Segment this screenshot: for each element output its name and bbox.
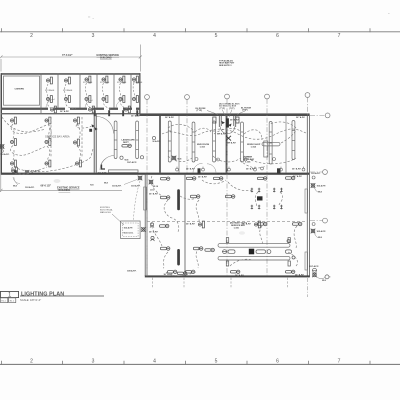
grid bubbles row (top)	[145, 93, 310, 100]
svg-text:6: 6	[276, 359, 279, 365]
top ruler ticks	[2, 28, 371, 32]
svg-text:WORK SHOP: WORK SHOP	[247, 144, 261, 146]
svg-text:1-103: 1-103	[200, 147, 206, 149]
svg-text:36" A.F.F.: 36" A.F.F.	[131, 115, 141, 118]
svg-text:(TYP): (TYP)	[220, 108, 226, 110]
tall fixture pill: x=270.6	[269, 122, 272, 165]
svg-text:ELECTRICAL: ELECTRICAL	[100, 209, 114, 212]
bench dark box	[249, 249, 254, 255]
storage door swing arcs	[46, 99, 124, 108]
locker cabinet in work shop	[264, 141, 268, 157]
storage partitions	[41, 74, 131, 114]
wall: lower block left wall (double line)	[145, 174, 147, 277]
tall fixture pill: mud band x=167.5	[168, 121, 171, 162]
label block right of grid stem	[229, 104, 241, 110]
top ruler numbers	[30, 33, 341, 39]
scan smudge near heavy duty bay	[239, 231, 245, 235]
room labels STORAGE	[45, 81, 143, 92]
svg-text:E1.1: E1.1	[10, 301, 15, 303]
svg-text:1-105: 1-105	[245, 162, 251, 164]
exterior wall light right wall upper	[311, 183, 316, 188]
svg-text:W-8: W-8	[104, 183, 109, 185]
dark strip fixture lower block B	[177, 249, 180, 266]
scan smudge near service bay	[54, 179, 61, 183]
work bench lower rail	[218, 256, 290, 260]
svg-text:W A.F.F.: W A.F.F.	[153, 140, 161, 143]
dark strip fixture lower block A	[177, 189, 180, 210]
fixtures at lower block NW corner	[150, 223, 155, 241]
svg-text:2: 2	[30, 33, 33, 39]
svg-text:SCALE: 1/8"=1'-0": SCALE: 1/8"=1'-0"	[20, 298, 41, 302]
lower block ceiling fixtures row 1	[160, 177, 170, 180]
wall: partition x=179	[178, 116, 180, 173]
svg-text:2: 2	[30, 359, 33, 365]
svg-text:36" A.F.F.: 36" A.F.F.	[230, 119, 240, 122]
wall: left wing bottom wall / lower block top wall	[1, 173, 310, 175]
vestibule homerun arrows	[222, 121, 225, 124]
manhole note text	[100, 207, 114, 214]
wall: interior wall x=160 between service bay and mud room band	[159, 116, 161, 173]
right-side grid leaders	[310, 115, 325, 220]
title block: number box	[1, 291, 19, 297]
wall: interior wall x=226 (vestibule)	[226, 116, 228, 173]
svg-text:36" A.F.F.: 36" A.F.F.	[235, 274, 245, 277]
tall fixture pill: x=296	[292, 121, 295, 160]
horizontal pill fixture in work shop	[262, 142, 280, 146]
exterior wall light right wall mid	[311, 229, 316, 234]
exterior wall light SE corner	[313, 268, 317, 272]
svg-text:36" A.F.F.: 36" A.F.F.	[295, 273, 305, 276]
tall fixture pill: x=193.5	[192, 122, 195, 162]
svg-text:36" A.F.F.: 36" A.F.F.	[186, 168, 196, 171]
dark junction box in service bay room	[257, 196, 263, 200]
svg-text:103 A.F.F.: 103 A.F.F.	[131, 185, 141, 188]
manhole box	[121, 221, 141, 239]
svg-text:7: 7	[338, 359, 341, 365]
storage room fixtures	[46, 77, 52, 84]
svg-text:W-10 U.G.: W-10 U.G.	[124, 233, 134, 235]
wall: lower block interior wall x=185	[184, 175, 186, 276]
tall fixture pill: x=212	[213, 121, 216, 162]
tall fixture pill: x=242	[241, 122, 244, 162]
downlight pairs in service bay room	[251, 188, 261, 192]
door arc from x=95 wall	[97, 117, 114, 134]
svg-text:77'-6 1/2": 77'-6 1/2"	[62, 54, 73, 57]
vestibule leader lines	[207, 110, 246, 118]
svg-text:BUILDING: BUILDING	[100, 57, 112, 60]
window panel on lower-left wall	[144, 187, 147, 210]
grid centerlines (dash-dot vertical)	[147, 97, 308, 277]
svg-text:36" A.F.F.: 36" A.F.F.	[296, 116, 306, 119]
wall light at manhole	[141, 227, 146, 232]
svg-text:108 A.F.F.: 108 A.F.F.	[127, 270, 137, 273]
left dimension line 66'-6 1/2"	[0, 75, 122, 192]
wall light at SW corner	[25, 170, 30, 175]
wall: partition x=286	[285, 116, 287, 173]
vestibule X mark	[226, 136, 231, 141]
svg-text:STORAGE: STORAGE	[100, 81, 110, 84]
gaps in storage south wall (doors)	[48, 108, 136, 111]
label block left of grid stem	[219, 104, 230, 110]
tall fixture pill with ticks: service bay x=115.5	[114, 121, 117, 159]
svg-text:36" A.F.F.: 36" A.F.F.	[165, 116, 175, 119]
vestibule door arc	[220, 127, 234, 134]
svg-text:6: 6	[276, 33, 279, 39]
scan speckles top	[88, 16, 90, 19]
svg-text:W-8: W-8	[178, 159, 183, 161]
title underline	[20, 295, 104, 297]
svg-text:36" A.F.F.: 36" A.F.F.	[186, 223, 196, 226]
circuit wiring dashed curves: left wing	[11, 117, 92, 174]
svg-text:36" A.F.F.: 36" A.F.F.	[246, 168, 256, 171]
svg-text:STORAGE: STORAGE	[117, 81, 127, 84]
svg-text:3: 3	[92, 359, 95, 365]
small ceiling outlets band bottom	[195, 158, 276, 170]
svg-text:5: 5	[215, 359, 218, 365]
svg-text:(TYP): (TYP)	[242, 110, 248, 112]
title block: ref boxes	[1, 298, 8, 303]
homerun arrows at interior wall	[92, 124, 95, 127]
dashed centerlines below building	[153, 278, 288, 288]
svg-text:36" A.F.F.: 36" A.F.F.	[217, 173, 227, 176]
svg-text:4: 4	[153, 359, 156, 365]
svg-text:CISTERN: CISTERN	[15, 89, 25, 91]
dashed interior line y=221 in lower block	[147, 220, 307, 222]
svg-text:103 A.F.F.: 103 A.F.F.	[112, 185, 122, 188]
svg-text:4: 4	[153, 33, 156, 39]
svg-text:W-8: W-8	[318, 237, 323, 239]
wall: building right exterior wall (double line)	[307, 115, 309, 278]
outlets in locker room	[120, 136, 156, 159]
long dashed wave across middle band	[2, 117, 306, 172]
svg-text:WF A.F.F.: WF A.F.F.	[217, 133, 227, 136]
svg-text:1-104: 1-104	[251, 146, 257, 149]
circuit wiring dashed curves: mud band	[168, 122, 296, 164]
svg-text:(TYP): (TYP)	[197, 110, 203, 112]
svg-text:3: 3	[92, 33, 95, 39]
vestibule walls at x=219.5/235	[219, 116, 235, 128]
right-side grid bubbles	[323, 113, 330, 223]
svg-text:(TYP): (TYP)	[229, 108, 235, 110]
svg-text:W-8: W-8	[318, 192, 323, 194]
dark door jambs on band bottom wall	[198, 168, 201, 174]
circuit wiring dashed curves: lower block	[151, 160, 298, 276]
wall: storage block south wall (left segment)	[1, 108, 141, 110]
work bench upper rail	[218, 244, 290, 248]
svg-text:36" A.F.F.: 36" A.F.F.	[292, 168, 302, 171]
lower block ceiling fixtures row 4 (near bottom wall)	[167, 270, 177, 273]
svg-text:103 A.F.F.: 103 A.F.F.	[311, 172, 321, 175]
dark panel on interior wall x=95	[89, 129, 92, 132]
svg-text:1-100: 1-100	[234, 228, 240, 230]
vestibule dark strip	[226, 118, 229, 127]
wall: main center wall thin left segment	[1, 113, 141, 114]
svg-text:36" A.F.F.: 36" A.F.F.	[164, 273, 174, 276]
svg-text:MAN HOLE: MAN HOLE	[100, 211, 111, 214]
lower block ceiling fixtures row 3	[160, 247, 170, 250]
svg-text:66'-6 1/2": 66'-6 1/2"	[41, 185, 52, 188]
bench end ticks	[226, 238, 228, 243]
window panel on right wall (upper)	[305, 189, 308, 213]
svg-text:103 A.F.F.: 103 A.F.F.	[0, 153, 10, 156]
svg-text:STORAGE: STORAGE	[133, 81, 143, 84]
svg-text:H-8: H-8	[90, 185, 94, 187]
bottom ruler line	[0, 363, 400, 365]
svg-text:103 A.F.F.: 103 A.F.F.	[317, 185, 327, 188]
door swing arcs at band bottom wall	[193, 163, 216, 173]
svg-text:36" A.F.F.: 36" A.F.F.	[198, 176, 208, 179]
band bottom-wall mounted fixtures	[176, 167, 305, 171]
corridor fixtures along y=109	[50, 106, 56, 113]
wall light in mud room	[172, 156, 177, 161]
circuit wiring dashed curves: storage rooms	[47, 83, 135, 109]
window panel on right wall (lower)	[305, 252, 308, 270]
scan speckle right	[388, 13, 390, 14]
bottom ruler ticks	[2, 361, 371, 365]
lower block ceiling fixtures row 2	[160, 196, 170, 199]
fixtures above dashed line	[198, 221, 204, 228]
svg-text:103 A.F.F.: 103 A.F.F.	[317, 230, 327, 233]
svg-text:STORAGE: STORAGE	[83, 81, 93, 84]
svg-text:W-8: W-8	[322, 280, 327, 282]
svg-text:E1.1: E1.1	[2, 301, 7, 303]
svg-text:103 A.F.F.: 103 A.F.F.	[124, 227, 134, 230]
svg-text:U.G.: U.G.	[150, 190, 155, 192]
svg-text:MUD ROOM: MUD ROOM	[197, 144, 209, 146]
exterior wall light left wing west	[0, 144, 4, 149]
wall: lower block bottom wall	[145, 275, 310, 277]
svg-text:103' A.F.F.: 103' A.F.F.	[309, 265, 319, 268]
svg-text:7: 7	[338, 33, 341, 39]
svg-text:WF A.F.F.: WF A.F.F.	[227, 142, 237, 145]
wall: main center wall right segment	[140, 113, 310, 116]
bottom ruler numbers	[30, 359, 341, 365]
cistern room inner outline	[4, 76, 40, 105]
service bay fixture grid	[10, 117, 16, 124]
svg-text:102' A.F.F.: 102' A.F.F.	[127, 161, 137, 164]
fixture at lower block bottom center	[177, 272, 187, 275]
wall: top wall of storage block	[1, 73, 141, 75]
top dimension line 77'-6 1/2"	[0, 45, 142, 72]
svg-text:36" A.F.F.: 36" A.F.F.	[60, 110, 70, 113]
door jambs below storage wall	[94, 110, 138, 116]
wall: left exterior wall	[1, 73, 2, 173]
svg-text:103 A.F.F.: 103 A.F.F.	[25, 186, 35, 189]
svg-text:36" A.F.F.: 36" A.F.F.	[149, 193, 159, 196]
svg-text:DEPT: DEPT	[123, 142, 129, 144]
bench middle symbols	[222, 240, 295, 260]
svg-text:36" A.F.F.: 36" A.F.F.	[293, 175, 303, 178]
svg-text:W-8: W-8	[13, 186, 18, 188]
dark jamb SW of locker room	[102, 165, 106, 170]
EL box squares on wall	[213, 117, 216, 123]
fixture pair on wing bottom wall	[11, 167, 17, 174]
wall: storage block right wall	[139, 73, 140, 114]
counter along bottom wall	[109, 170, 139, 173]
manhole leader	[112, 214, 124, 225]
svg-text:5: 5	[215, 33, 218, 39]
svg-text:BUILDING: BUILDING	[59, 189, 71, 192]
tall fixture pill: service bay x=137	[136, 121, 139, 159]
top ruler line	[0, 31, 400, 33]
exterior wall lights below left wing near x=140	[138, 176, 143, 181]
svg-text:SEE NOTE 3: SEE NOTE 3	[219, 65, 232, 67]
svg-text:10# A.F.F.: 10# A.F.F.	[98, 172, 108, 175]
svg-text:W-10: W-10	[153, 186, 159, 188]
wall: interior wall x=95 in left wing	[94, 114, 96, 173]
